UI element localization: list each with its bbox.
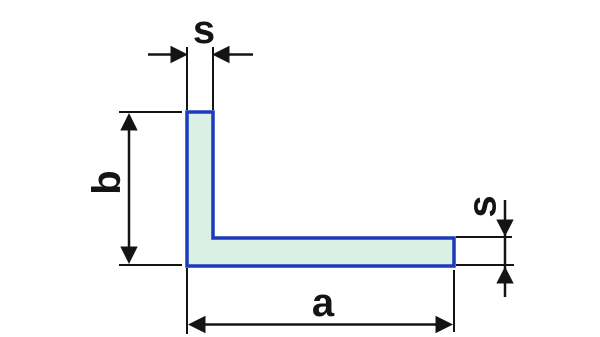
L-profile cross-section	[187, 112, 454, 266]
arrow s-right up	[496, 267, 513, 284]
dimension tail s-top right	[228, 53, 253, 56]
dimension line s-right (continuous)	[504, 200, 507, 297]
extension line a right	[453, 270, 455, 332]
svg-text:b: b	[85, 170, 129, 194]
svg-text:s: s	[460, 195, 504, 217]
dimension line a	[203, 323, 438, 326]
extension line b top	[119, 111, 182, 113]
arrow a right	[436, 316, 454, 333]
svg-text:a: a	[312, 281, 335, 325]
svg-text:s: s	[193, 8, 215, 52]
extension line s-right top	[456, 236, 512, 238]
extension line a left	[186, 268, 188, 334]
arrow a left	[188, 316, 206, 333]
dimension tail s-top left	[148, 53, 172, 56]
arrow s-right down	[496, 220, 513, 237]
arrow s-top left	[171, 46, 189, 63]
extension line s-right bottom	[456, 264, 514, 266]
dimension line b	[128, 128, 131, 248]
arrow b down	[120, 247, 137, 265]
extension line s-top left	[186, 47, 188, 110]
extension line b bottom	[119, 264, 182, 266]
arrow s-top right	[212, 46, 230, 63]
arrow b up	[120, 113, 137, 131]
extension line s-top right	[212, 47, 214, 110]
